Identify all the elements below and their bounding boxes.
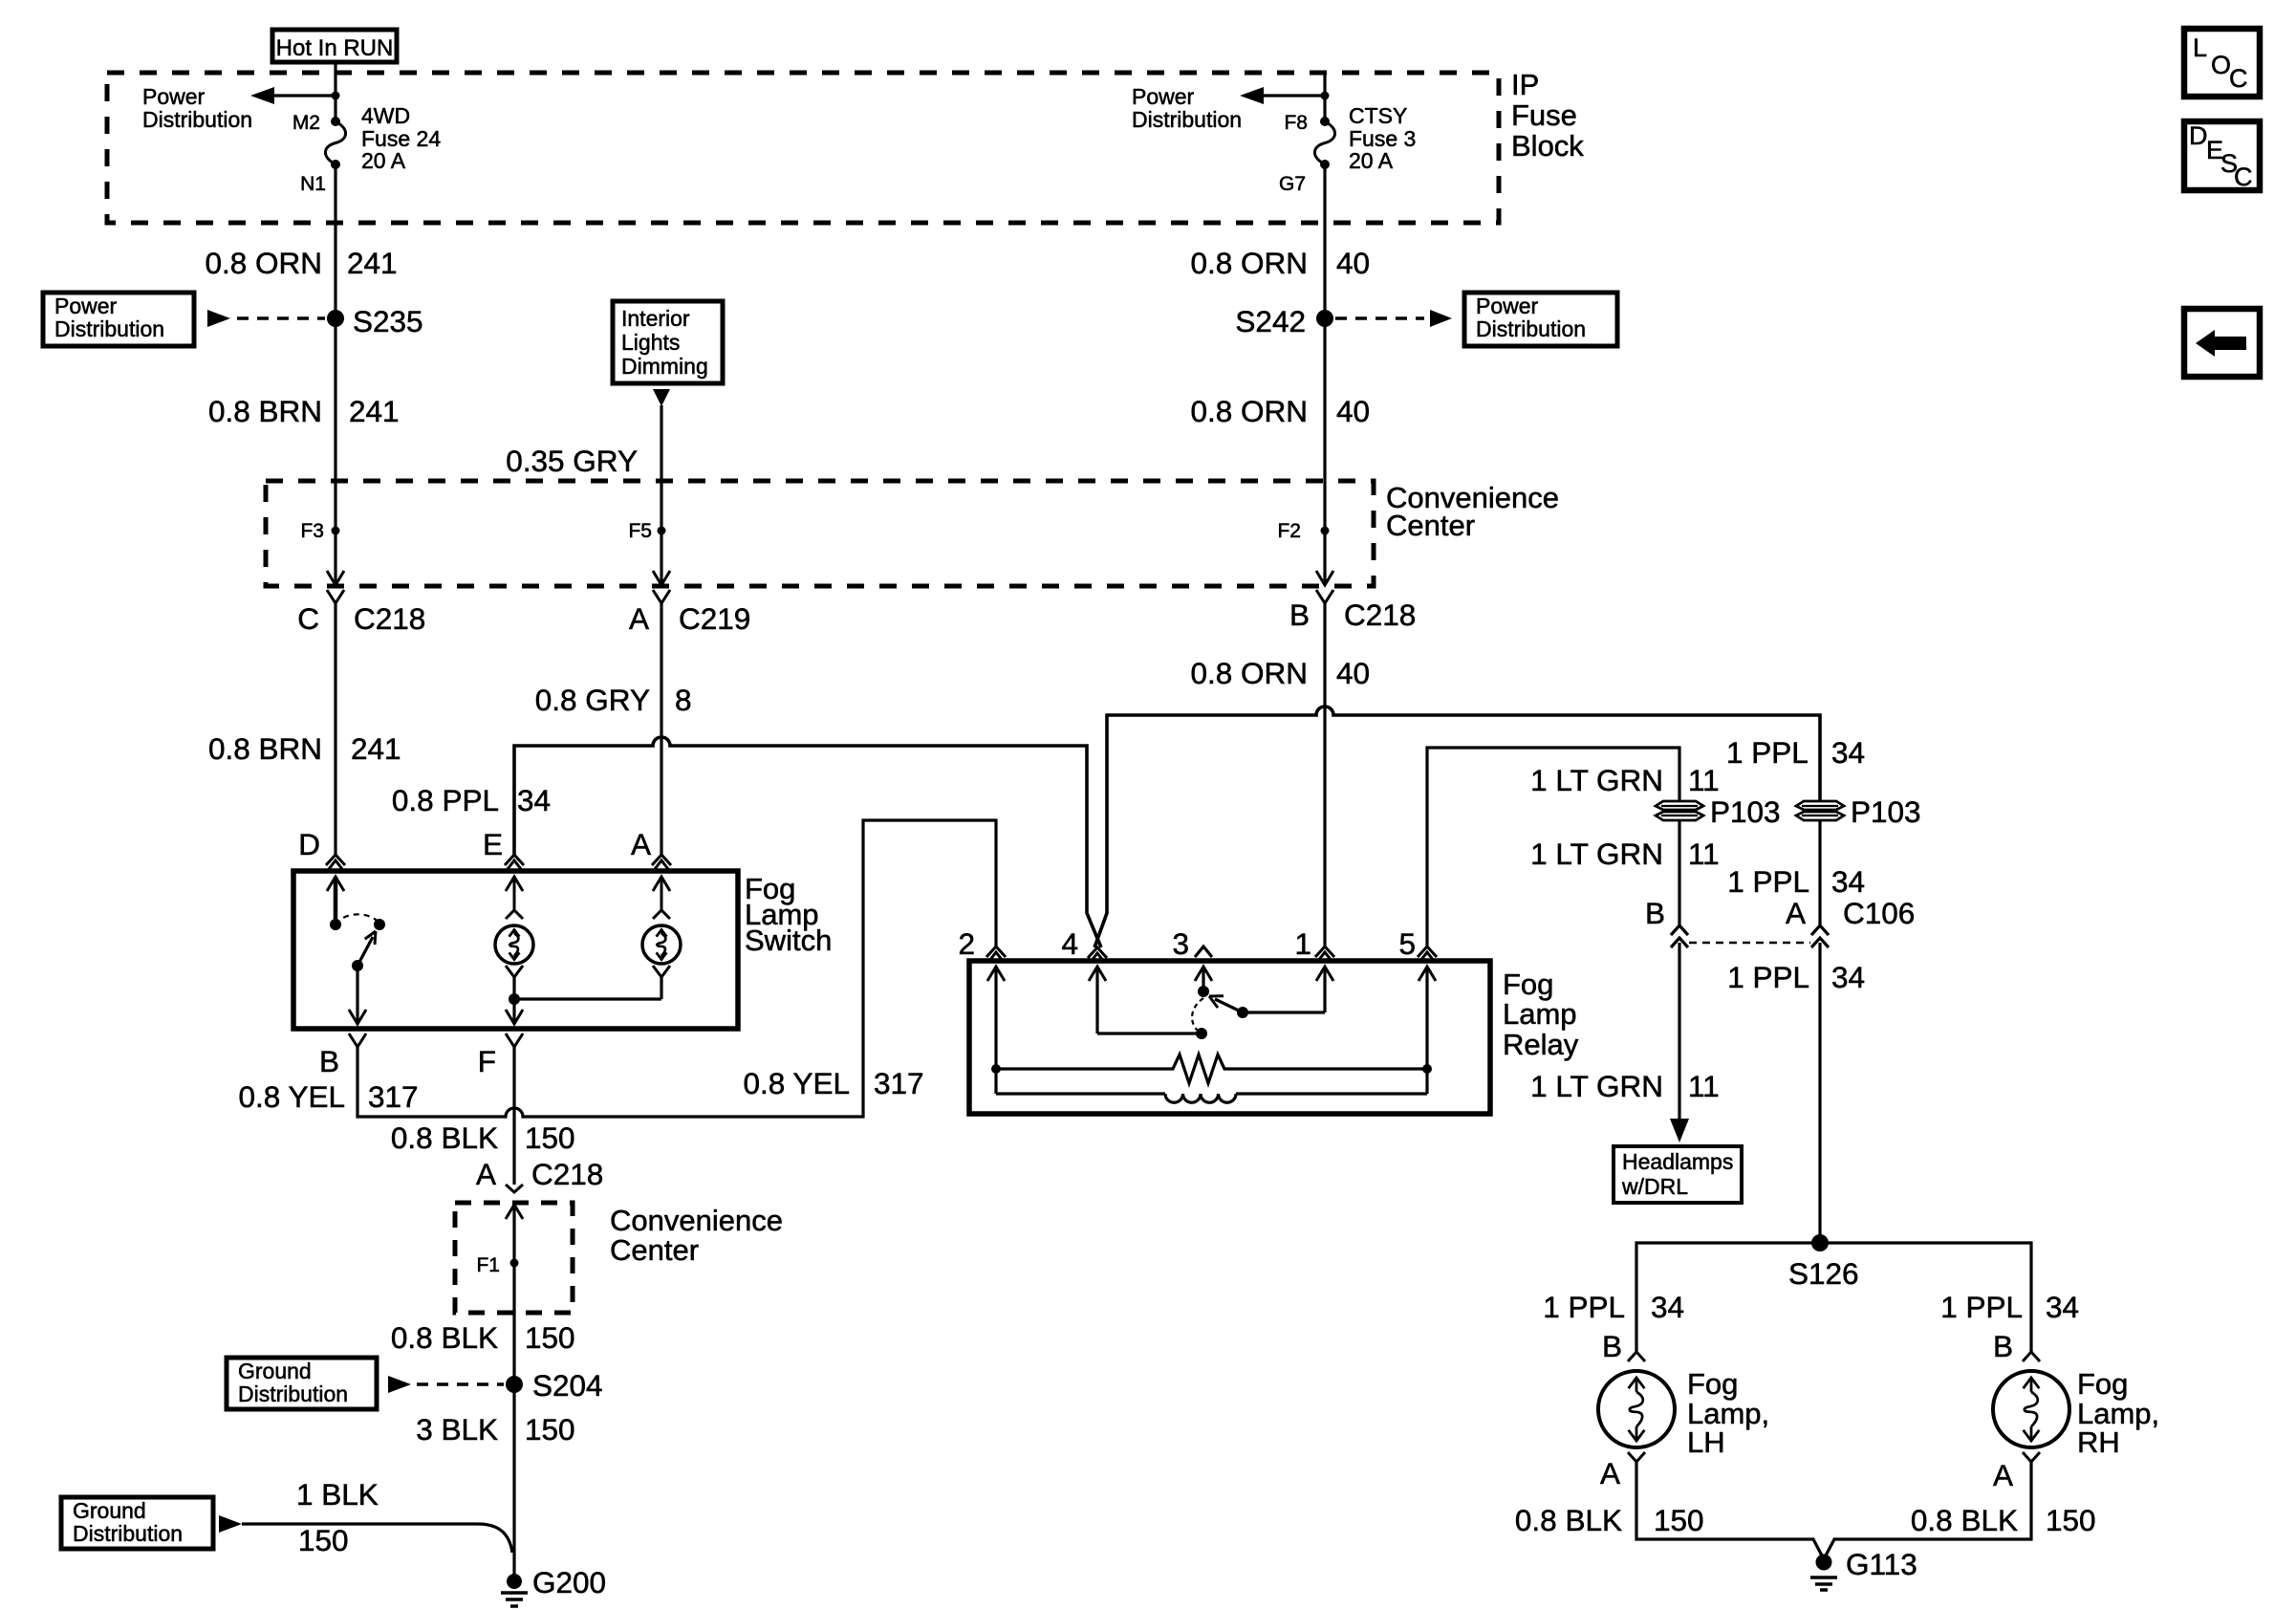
svg-text:Convenience: Convenience (610, 1204, 783, 1237)
svg-text:Distribution: Distribution (73, 1521, 183, 1546)
svg-text:11: 11 (1688, 1069, 1720, 1103)
svg-text:Lamp: Lamp (1503, 997, 1577, 1031)
svg-text:1: 1 (1294, 926, 1311, 961)
svg-text:241: 241 (351, 731, 401, 766)
svg-text:150: 150 (298, 1523, 349, 1557)
svg-text:3: 3 (1172, 926, 1189, 961)
svg-text:3 BLK: 3 BLK (416, 1412, 498, 1447)
svg-text:1 PPL: 1 PPL (1726, 735, 1809, 770)
svg-text:1 BLK: 1 BLK (296, 1477, 379, 1512)
svg-text:0.8 ORN: 0.8 ORN (1190, 656, 1308, 690)
svg-text:1 LT GRN: 1 LT GRN (1530, 837, 1663, 871)
svg-text:A: A (631, 827, 651, 861)
svg-text:P103: P103 (1710, 794, 1781, 829)
svg-text:F: F (478, 1044, 496, 1078)
svg-text:40: 40 (1336, 246, 1370, 280)
svg-text:317: 317 (874, 1066, 924, 1100)
svg-text:LH: LH (1687, 1425, 1725, 1459)
svg-text:20 A: 20 A (1349, 148, 1394, 173)
svg-text:0.8 BRN: 0.8 BRN (208, 394, 322, 428)
svg-text:0.35 GRY: 0.35 GRY (506, 444, 638, 478)
svg-text:A: A (1786, 896, 1806, 930)
svg-text:241: 241 (347, 246, 398, 280)
svg-text:0.8 ORN: 0.8 ORN (1190, 394, 1308, 428)
svg-text:Ground: Ground (238, 1359, 312, 1383)
svg-text:S126: S126 (1788, 1256, 1859, 1291)
svg-text:P103: P103 (1851, 794, 1921, 829)
svg-text:N1: N1 (300, 173, 326, 195)
svg-text:20 A: 20 A (361, 148, 406, 173)
svg-text:Power: Power (142, 84, 206, 109)
svg-text:2: 2 (958, 926, 975, 961)
svg-text:G113: G113 (1846, 1547, 1917, 1581)
svg-text:Distribution: Distribution (1476, 316, 1586, 341)
svg-text:Distribution: Distribution (1132, 107, 1242, 132)
svg-text:Block: Block (1511, 129, 1584, 163)
svg-text:4WD: 4WD (361, 103, 410, 128)
svg-text:C: C (2234, 163, 2253, 191)
svg-text:34: 34 (2046, 1290, 2079, 1324)
svg-text:0.8 YEL: 0.8 YEL (743, 1066, 850, 1100)
svg-text:C106: C106 (1843, 896, 1915, 930)
svg-text:317: 317 (368, 1079, 419, 1114)
svg-text:B: B (1645, 896, 1665, 930)
svg-text:F5: F5 (628, 520, 652, 542)
svg-text:Ground: Ground (73, 1498, 146, 1523)
svg-text:A: A (1993, 1458, 2013, 1492)
svg-text:D: D (2189, 121, 2208, 150)
svg-text:Lights: Lights (621, 330, 680, 355)
svg-text:G7: G7 (1279, 173, 1306, 195)
svg-text:C: C (297, 601, 319, 636)
svg-text:4: 4 (1061, 926, 1078, 961)
svg-text:Dimming: Dimming (621, 354, 708, 379)
svg-text:A: A (1600, 1456, 1620, 1490)
svg-text:F8: F8 (1284, 112, 1308, 134)
svg-text:34: 34 (1831, 960, 1865, 994)
svg-text:S242: S242 (1235, 304, 1306, 338)
svg-text:F1: F1 (476, 1254, 500, 1276)
svg-text:11: 11 (1688, 837, 1720, 871)
svg-text:Power: Power (54, 294, 118, 318)
svg-text:Center: Center (610, 1233, 699, 1267)
svg-text:C218: C218 (531, 1157, 603, 1191)
svg-text:M2: M2 (292, 112, 320, 134)
svg-text:Fog: Fog (1687, 1367, 1738, 1401)
svg-text:150: 150 (525, 1320, 575, 1355)
svg-text:B: B (319, 1044, 339, 1078)
svg-text:0.8 BLK: 0.8 BLK (391, 1320, 498, 1355)
svg-text:Interior: Interior (621, 306, 690, 331)
svg-text:34: 34 (1651, 1290, 1684, 1324)
svg-text:150: 150 (525, 1412, 575, 1447)
svg-text:40: 40 (1336, 394, 1370, 428)
svg-text:0.8 ORN: 0.8 ORN (205, 246, 322, 280)
svg-text:0.8 YEL: 0.8 YEL (238, 1079, 345, 1114)
svg-text:Headlamps: Headlamps (1622, 1149, 1733, 1174)
svg-text:F2: F2 (1277, 520, 1301, 542)
svg-text:Hot In RUN: Hot In RUN (276, 35, 394, 61)
svg-text:40: 40 (1336, 656, 1370, 690)
svg-text:1 PPL: 1 PPL (1727, 864, 1809, 899)
svg-text:5: 5 (1398, 926, 1416, 961)
svg-text:1 PPL: 1 PPL (1727, 960, 1809, 994)
svg-text:IP: IP (1511, 68, 1539, 101)
svg-text:8: 8 (675, 683, 692, 717)
svg-text:34: 34 (517, 783, 551, 817)
svg-text:0.8 BLK: 0.8 BLK (1515, 1503, 1622, 1537)
svg-text:0.8 GRY: 0.8 GRY (535, 683, 650, 717)
svg-text:Fog: Fog (2077, 1367, 2128, 1401)
svg-text:1 PPL: 1 PPL (1940, 1290, 2023, 1324)
svg-text:C: C (2229, 64, 2248, 93)
svg-text:Distribution: Distribution (54, 316, 164, 341)
svg-text:34: 34 (1831, 864, 1865, 899)
svg-text:D: D (298, 827, 320, 861)
svg-text:150: 150 (525, 1120, 575, 1155)
svg-text:Distribution: Distribution (238, 1382, 348, 1406)
svg-text:Fuse: Fuse (1511, 98, 1577, 132)
svg-text:w/DRL: w/DRL (1621, 1174, 1688, 1199)
svg-text:0.8 BRN: 0.8 BRN (208, 731, 322, 766)
svg-text:1 LT GRN: 1 LT GRN (1530, 1069, 1663, 1103)
svg-text:241: 241 (349, 394, 400, 428)
svg-text:RH: RH (2077, 1425, 2120, 1459)
svg-text:CTSY: CTSY (1349, 103, 1407, 128)
svg-text:Switch: Switch (745, 924, 832, 957)
svg-text:0.8 BLK: 0.8 BLK (391, 1120, 498, 1155)
svg-text:1 LT GRN: 1 LT GRN (1530, 763, 1663, 797)
svg-text:34: 34 (1831, 735, 1865, 770)
svg-text:C219: C219 (679, 601, 750, 636)
svg-text:E: E (483, 827, 503, 861)
svg-text:0.8 BLK: 0.8 BLK (1911, 1503, 2018, 1537)
svg-text:Distribution: Distribution (142, 107, 252, 132)
svg-text:C218: C218 (1344, 598, 1416, 632)
svg-text:Fog: Fog (1503, 968, 1553, 1001)
svg-text:O: O (2211, 51, 2231, 79)
svg-text:150: 150 (1654, 1503, 1704, 1537)
svg-text:B: B (1602, 1329, 1622, 1363)
svg-text:C218: C218 (354, 601, 425, 636)
svg-text:L: L (2193, 33, 2207, 62)
svg-text:0.8 ORN: 0.8 ORN (1190, 246, 1308, 280)
svg-text:A: A (629, 601, 649, 636)
svg-text:1 PPL: 1 PPL (1543, 1290, 1625, 1324)
svg-text:150: 150 (2046, 1503, 2096, 1537)
svg-text:F3: F3 (300, 520, 324, 542)
svg-text:G200: G200 (532, 1565, 606, 1599)
svg-text:11: 11 (1688, 763, 1720, 797)
svg-text:B: B (1993, 1329, 2013, 1363)
svg-text:S204: S204 (532, 1368, 603, 1403)
svg-text:B: B (1289, 598, 1310, 632)
svg-text:S235: S235 (353, 304, 423, 338)
svg-text:Center: Center (1386, 509, 1475, 542)
svg-text:0.8 PPL: 0.8 PPL (392, 783, 499, 817)
svg-text:Power: Power (1132, 84, 1195, 109)
svg-text:A: A (476, 1157, 496, 1191)
svg-text:Relay: Relay (1503, 1028, 1579, 1061)
svg-text:Power: Power (1476, 294, 1539, 318)
